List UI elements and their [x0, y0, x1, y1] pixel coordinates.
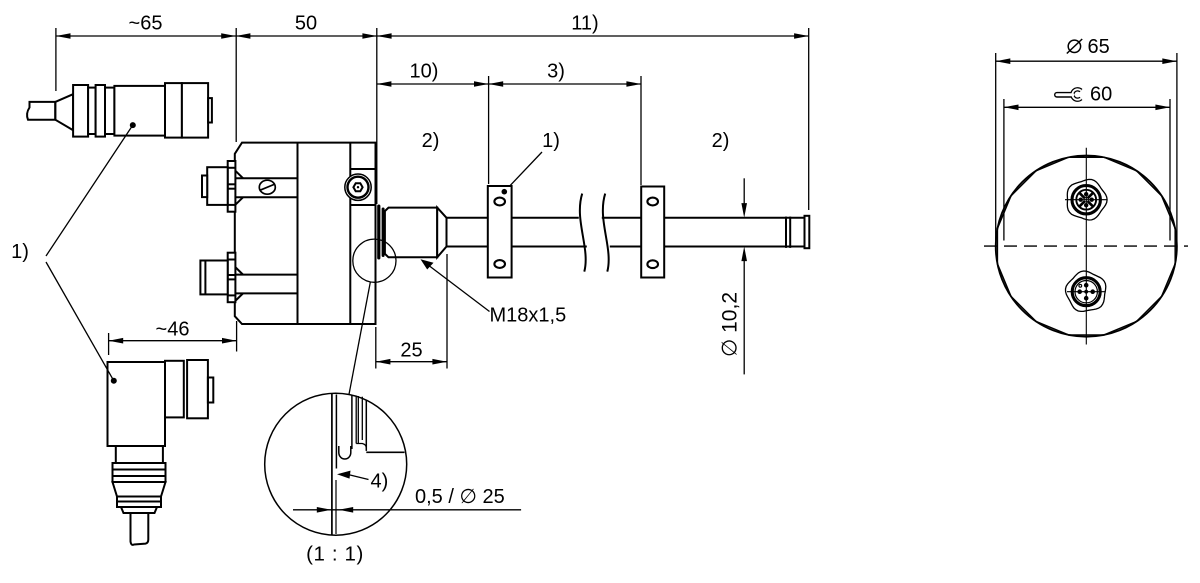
barrel ring 1 — [165, 361, 184, 418]
dimension diameter 10,2 — [719, 178, 748, 374]
end view: dimension diameter 65 — [996, 36, 1177, 241]
detail offset face — [335, 395, 337, 469]
cable — [27, 102, 55, 120]
end view: dashed centerline — [984, 245, 1188, 247]
svg-text:50: 50 — [295, 13, 317, 35]
dimension 10) — [377, 61, 489, 185]
detail circle (1:1) — [265, 393, 521, 565]
clamp 2 — [641, 187, 664, 278]
end view: connector bottom (male 4-pin) — [1066, 271, 1106, 311]
sensor body housing — [235, 143, 376, 324]
svg-text:M18x1,5: M18x1,5 — [490, 305, 567, 327]
clamp 1 — [488, 186, 512, 278]
neck — [116, 446, 163, 463]
detail face line — [331, 394, 333, 535]
detail balloon on body — [353, 239, 396, 282]
dimension 0,5 — [293, 509, 521, 511]
nub — [208, 378, 213, 403]
label 4) with arrow — [337, 471, 351, 479]
svg-text:4): 4) — [371, 471, 389, 493]
label M18x1,5 with leader arrow — [421, 259, 567, 326]
end view: knurled cap circle — [996, 156, 1177, 337]
detail shoulder line — [366, 451, 404, 453]
end view: cross tick top — [1065, 199, 1108, 201]
svg-text:1): 1) — [11, 241, 29, 263]
port socket top (on body left) — [202, 161, 235, 212]
dimension ~65 — [56, 13, 236, 92]
hex socket screw — [345, 174, 371, 200]
M18 nut — [385, 208, 437, 258]
svg-text:1): 1) — [542, 130, 560, 152]
end view: connector top (female) — [1067, 179, 1107, 220]
detail seal section lines — [351, 395, 353, 449]
lower rib — [117, 497, 161, 508]
svg-text:2): 2) — [712, 130, 730, 152]
rod end flange — [805, 216, 810, 248]
detail bulb nose — [339, 446, 351, 459]
svg-text:2): 2) — [422, 130, 440, 152]
cone — [437, 208, 446, 258]
slotted screw — [259, 180, 275, 194]
svg-text:~65: ~65 — [129, 13, 163, 35]
rod end grooves — [785, 217, 787, 248]
dimension ~46 — [109, 319, 237, 356]
end view: polygon flats — [997, 157, 1175, 335]
svg-text:0,5 / ∅ 25: 0,5 / ∅ 25 — [415, 486, 505, 508]
strain relief cone — [55, 94, 73, 130]
svg-text:~46: ~46 — [156, 319, 190, 341]
end view: vertical centerline — [1085, 148, 1087, 345]
end view: cross tick bottom — [1067, 291, 1106, 293]
svg-text:10): 10) — [410, 61, 439, 83]
connector plug 1 (straight, top left) — [27, 83, 212, 138]
taper — [113, 482, 166, 497]
port socket bottom (on body left) — [200, 253, 235, 303]
nub — [208, 98, 212, 122]
label 1) with leader to clamp — [504, 130, 560, 192]
dimension 11) — [377, 13, 809, 211]
svg-text:25: 25 — [400, 340, 422, 362]
barrel ring 2 — [187, 360, 208, 418]
barrel — [114, 86, 165, 136]
label 1) far left with two leaders — [11, 122, 136, 384]
cable down — [131, 513, 149, 545]
dimension 25 — [376, 254, 447, 369]
svg-text:(1 : 1): (1 : 1) — [306, 543, 364, 566]
seal ring 2 — [382, 208, 385, 258]
connector plug 2 (angled, bottom left) — [108, 360, 214, 545]
dimension 50 — [236, 13, 377, 143]
end cap — [182, 83, 208, 138]
balloon leader — [349, 282, 370, 395]
seal ring 1 — [377, 205, 380, 260]
rod (probe tube) — [447, 218, 805, 247]
wrench icon — [1054, 92, 1074, 98]
svg-text:3): 3) — [547, 61, 565, 83]
body box — [108, 362, 166, 446]
break mark curves — [580, 194, 609, 272]
rib block — [113, 463, 166, 482]
svg-text:∅ 10,2: ∅ 10,2 — [719, 292, 742, 357]
cap — [121, 507, 157, 513]
dimension 3) — [489, 61, 641, 186]
grip rings — [73, 85, 88, 137]
svg-text:11): 11) — [571, 13, 598, 35]
svg-text:60: 60 — [1090, 84, 1112, 106]
svg-text:65: 65 — [1088, 36, 1110, 58]
end view: dimension wrench 60 — [1004, 84, 1170, 241]
ring — [165, 83, 182, 138]
